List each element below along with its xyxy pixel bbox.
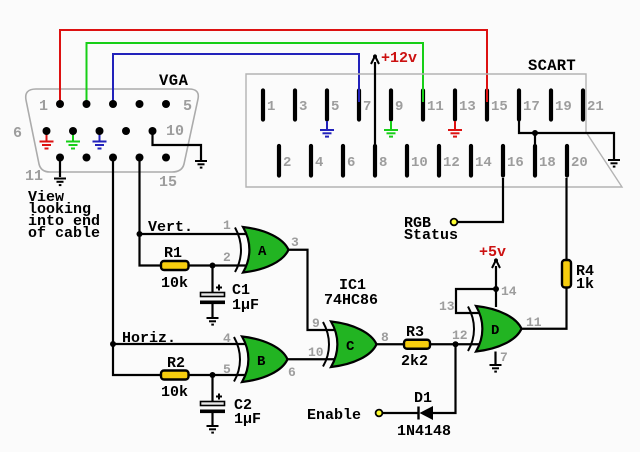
wire gate D output 11 to R4 bbox=[522, 288, 567, 329]
SCART pin 6 bbox=[341, 146, 345, 176]
VGA pin 11 bbox=[56, 154, 64, 162]
VGA pin 8 bbox=[96, 127, 104, 135]
wire Vert node down to R1 bbox=[140, 234, 163, 266]
SCART pin 18 bbox=[533, 146, 537, 176]
svg-text:1µF: 1µF bbox=[232, 297, 259, 314]
wire red: VGA pin1 to SCART pin15 bbox=[60, 30, 487, 104]
wire VGA pin10 to ground bbox=[153, 131, 202, 160]
svg-text:8: 8 bbox=[381, 330, 389, 345]
wire gate C output to R3 bbox=[377, 343, 406, 345]
svg-text:19: 19 bbox=[555, 99, 572, 115]
svg-text:of cable: of cable bbox=[28, 225, 100, 242]
svg-text:7: 7 bbox=[500, 350, 508, 365]
wire VGA pin13 to Horiz node bbox=[112, 158, 114, 345]
ground blue (SCART pin 5) bbox=[320, 121, 334, 137]
svg-text:B: B bbox=[257, 354, 266, 370]
xor gate D bbox=[468, 306, 522, 352]
VGA pin 7 bbox=[69, 127, 77, 135]
svg-text:11: 11 bbox=[427, 99, 444, 115]
wire Horiz node to gate B input 4 bbox=[113, 343, 246, 345]
wire VGA pin11 to ground bbox=[59, 158, 61, 178]
SCART pin 10 bbox=[405, 146, 409, 176]
ground (C1) bbox=[207, 318, 219, 325]
svg-text:A: A bbox=[258, 244, 267, 260]
resistor R3 bbox=[404, 340, 430, 349]
svg-text:R2: R2 bbox=[167, 355, 185, 372]
svg-text:R3: R3 bbox=[406, 324, 424, 341]
wire VGA pin14 to Vert node bbox=[138, 158, 140, 235]
SCART pin 9 bbox=[389, 91, 393, 120]
svg-text:21: 21 bbox=[587, 99, 604, 115]
svg-text:1N4148: 1N4148 bbox=[397, 423, 451, 440]
svg-text:15: 15 bbox=[491, 99, 508, 115]
wire SCART pin20 to R4 bbox=[565, 178, 567, 261]
SCART pin 4 bbox=[309, 146, 313, 176]
VGA pin 13 bbox=[109, 154, 117, 162]
svg-text:VGA: VGA bbox=[159, 72, 189, 90]
+12v arrow head bbox=[371, 56, 379, 64]
SCART connector outline bbox=[246, 74, 622, 187]
ground (SCART shield) bbox=[608, 160, 620, 167]
wire D1 to node bbox=[433, 344, 456, 413]
svg-text:20: 20 bbox=[571, 155, 588, 171]
VGA pin 2 bbox=[83, 100, 91, 108]
node Horiz junction bbox=[110, 341, 116, 347]
wire SCART pins 17,18 to ground bbox=[519, 121, 614, 159]
ground red (SCART pin 13) bbox=[448, 121, 462, 137]
VGA pin 3 bbox=[109, 100, 117, 108]
SCART pin 7 bbox=[357, 91, 361, 120]
svg-text:17: 17 bbox=[523, 99, 540, 115]
svg-text:6: 6 bbox=[288, 365, 296, 380]
ground blue (VGA pin 8) bbox=[93, 131, 107, 149]
svg-text:9: 9 bbox=[395, 99, 403, 115]
xor gate C bbox=[323, 322, 377, 368]
capacitor C1 bbox=[200, 285, 225, 305]
svg-text:D1: D1 bbox=[414, 390, 432, 407]
SCART pin 2 bbox=[277, 146, 281, 176]
SCART pin 19 bbox=[549, 91, 553, 120]
xor gate A bbox=[235, 227, 289, 273]
SCART pin 3 bbox=[293, 91, 297, 120]
svg-text:2k2: 2k2 bbox=[401, 353, 428, 370]
wire C1 to ground bbox=[211, 304, 213, 317]
VGA pin 6 bbox=[43, 127, 51, 135]
SCART pin 1 bbox=[261, 91, 265, 120]
svg-text:16: 16 bbox=[507, 155, 524, 171]
svg-text:Enable: Enable bbox=[307, 407, 361, 424]
svg-text:3: 3 bbox=[291, 235, 299, 250]
VGA pin 5 bbox=[162, 100, 170, 108]
ground green (SCART pin 9) bbox=[384, 121, 398, 137]
VGA pin 15 bbox=[162, 154, 170, 162]
node D1 junction bbox=[453, 341, 459, 347]
svg-text:5: 5 bbox=[331, 99, 339, 115]
svg-text:74HC86: 74HC86 bbox=[324, 292, 378, 309]
svg-text:10k: 10k bbox=[161, 384, 188, 401]
node junction pin18 bbox=[532, 130, 538, 136]
svg-text:14: 14 bbox=[475, 155, 492, 171]
wire R2 to gate B input 5 bbox=[189, 374, 247, 376]
wire C2 tap to C2 bbox=[211, 375, 213, 402]
resistor R1 bbox=[161, 261, 189, 270]
SCART pin 17 bbox=[517, 91, 521, 120]
wire R3 to gate D input 12 bbox=[430, 343, 480, 345]
wire gate B output to gate C input 10 bbox=[288, 358, 336, 360]
ground (gate D pin 7) bbox=[490, 365, 502, 372]
SCART pin 12 bbox=[437, 146, 441, 176]
wire Enable terminal to D1 bbox=[383, 412, 419, 414]
svg-text:1k: 1k bbox=[576, 276, 594, 293]
svg-text:9: 9 bbox=[312, 316, 320, 331]
svg-text:4: 4 bbox=[223, 331, 231, 346]
wire green: VGA pin2 to SCART pin11 bbox=[87, 43, 424, 104]
svg-text:4: 4 bbox=[315, 155, 323, 171]
node C2 tap bbox=[210, 372, 216, 378]
wire SCART pin16 to RGB Status terminal bbox=[458, 178, 503, 222]
svg-text:11: 11 bbox=[25, 168, 43, 185]
wire Horiz node down to R2 bbox=[113, 344, 162, 375]
xor gate B bbox=[234, 337, 288, 383]
resistor R2 bbox=[161, 371, 189, 380]
svg-text:C: C bbox=[346, 339, 355, 355]
ground red (VGA pin 6) bbox=[40, 131, 54, 149]
svg-text:2: 2 bbox=[283, 155, 291, 171]
svg-text:10k: 10k bbox=[161, 275, 188, 292]
wire red overlay on SCART pin 15 bbox=[486, 88, 488, 102]
svg-text:10: 10 bbox=[308, 345, 324, 360]
SCART bottom row pin number labels bbox=[283, 155, 588, 171]
ground (VGA pin 11) bbox=[54, 179, 66, 186]
node Vert junction bbox=[137, 231, 143, 237]
wire vcc junction to gate D input 13 bbox=[456, 289, 496, 313]
wire gate A output to gate C input 9 bbox=[289, 250, 336, 330]
wire SCART pin 18 stub bbox=[534, 133, 536, 147]
svg-text:5: 5 bbox=[183, 98, 192, 115]
wire C2 to ground bbox=[211, 413, 213, 425]
SCART top row pin number labels bbox=[267, 99, 604, 115]
svg-text:SCART: SCART bbox=[528, 57, 576, 75]
svg-text:1: 1 bbox=[39, 98, 48, 115]
VGA pin 12 bbox=[83, 154, 91, 162]
node C1 tap bbox=[210, 263, 216, 269]
wire C1 tap to C1 bbox=[211, 266, 213, 294]
ground green (VGA pin 7) bbox=[66, 131, 80, 149]
node vcc junction bbox=[493, 286, 499, 292]
caption: View looking into end of cable bbox=[28, 189, 100, 242]
VGA pin 1 bbox=[56, 100, 64, 108]
SCART pin 16 bbox=[501, 146, 505, 176]
wire +5v to gate D vcc pin 14 bbox=[495, 266, 497, 307]
svg-text:14: 14 bbox=[501, 284, 517, 299]
svg-text:3: 3 bbox=[299, 99, 307, 115]
svg-text:+12v: +12v bbox=[381, 50, 417, 67]
wire gate D gnd pin 7 bbox=[494, 352, 496, 365]
svg-text:1: 1 bbox=[223, 218, 231, 233]
wire green overlay on SCART pin 11 bbox=[422, 88, 424, 102]
SCART pin 8 bbox=[373, 146, 377, 176]
svg-text:10: 10 bbox=[166, 123, 184, 140]
capacitor C2 bbox=[200, 394, 225, 414]
wire blue overlay on SCART pin 7 bbox=[358, 88, 360, 102]
diode D1 bbox=[419, 406, 434, 420]
svg-text:10: 10 bbox=[411, 155, 428, 171]
svg-text:13: 13 bbox=[459, 99, 476, 115]
SCART pin 20 bbox=[565, 146, 569, 176]
+5v arrow head bbox=[492, 260, 500, 268]
svg-text:5: 5 bbox=[223, 362, 231, 377]
svg-text:15: 15 bbox=[159, 174, 177, 191]
wire blue: VGA pin3 to SCART pin7 bbox=[113, 54, 359, 104]
svg-text:12: 12 bbox=[452, 328, 468, 343]
svg-text:1µF: 1µF bbox=[234, 411, 261, 428]
svg-text:6: 6 bbox=[13, 125, 22, 142]
SCART pin 5 bbox=[325, 91, 329, 120]
svg-text:6: 6 bbox=[347, 155, 355, 171]
svg-text:2: 2 bbox=[223, 250, 231, 265]
VGA pin 14 bbox=[136, 154, 144, 162]
svg-text:R1: R1 bbox=[164, 245, 182, 262]
svg-text:Status: Status bbox=[404, 227, 458, 244]
ground (VGA pin 10) bbox=[195, 161, 207, 168]
SCART pin 14 bbox=[469, 146, 473, 176]
VGA pin 9 bbox=[122, 127, 130, 135]
terminal RGB Status bbox=[451, 219, 458, 226]
SCART pin 21 bbox=[581, 91, 585, 120]
resistor R4 bbox=[562, 260, 571, 288]
wire +12v supply to SCART pin 8 bbox=[374, 62, 376, 148]
svg-text:8: 8 bbox=[379, 155, 387, 171]
svg-text:1: 1 bbox=[267, 99, 275, 115]
SCART pin 15 bbox=[485, 91, 489, 120]
VGA pin 10 bbox=[149, 127, 157, 135]
SCART pin 13 bbox=[453, 91, 457, 120]
svg-text:7: 7 bbox=[363, 99, 371, 115]
svg-text:13: 13 bbox=[439, 299, 455, 314]
wire Vert node to gate A input 1 bbox=[140, 233, 248, 235]
VGA connector shell bbox=[26, 89, 199, 172]
SCART pin 11 bbox=[421, 91, 425, 120]
wire R1 to gate A input 2 bbox=[189, 264, 248, 266]
svg-text:12: 12 bbox=[443, 155, 460, 171]
VGA pin 4 bbox=[136, 100, 144, 108]
terminal Enable bbox=[376, 410, 383, 417]
svg-text:+5v: +5v bbox=[479, 244, 506, 261]
svg-text:D: D bbox=[491, 323, 499, 339]
svg-text:18: 18 bbox=[539, 155, 556, 171]
ground (C2) bbox=[207, 426, 219, 433]
